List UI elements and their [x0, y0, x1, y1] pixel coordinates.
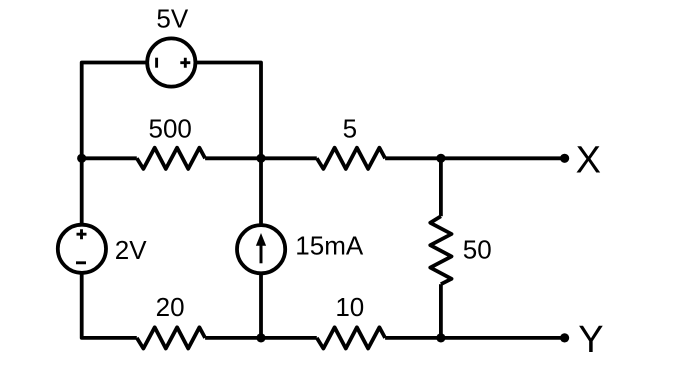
wire right vertical upper lead	[439, 158, 443, 216]
svg-text:5: 5	[343, 113, 357, 143]
voltage source V1 minus terminal mark	[155, 58, 158, 68]
node junction dot at middle main row	[256, 154, 265, 163]
svg-text:2V: 2V	[115, 235, 147, 265]
wire bottom row middle segment	[205, 336, 317, 340]
resistor R1 500	[137, 148, 205, 169]
resistor R4 20	[137, 327, 205, 348]
voltage source V2 minus mark	[76, 261, 86, 264]
svg-text:X: X	[576, 140, 601, 182]
node junction dot at left main row	[77, 154, 86, 163]
terminal node Y dot	[560, 333, 569, 342]
resistor R2 5	[317, 148, 385, 169]
wire left vertical + top horizontal + middle vertical (passes under 2V, 5V, 15mA sources)	[82, 63, 261, 338]
current source I1 15mA circle	[237, 225, 285, 273]
node junction dot at right main row	[436, 154, 445, 163]
terminal node X dot	[560, 154, 569, 163]
svg-text:500: 500	[149, 113, 192, 143]
svg-text:5V: 5V	[156, 4, 188, 34]
voltage source V2 2V circle	[58, 225, 106, 273]
wire main row middle segment	[205, 156, 317, 160]
svg-text:Y: Y	[578, 319, 603, 361]
svg-text:50: 50	[463, 235, 492, 265]
node junction dot at middle bottom row	[256, 333, 265, 342]
current source I1 arrow head	[256, 233, 266, 246]
wire main row right segment to terminal X	[385, 156, 564, 160]
wire bottom row right segment to terminal Y	[385, 336, 564, 340]
svg-text:15mA: 15mA	[295, 231, 364, 261]
resistor R3 50	[430, 216, 451, 284]
voltage source V2 plus mark	[77, 229, 87, 239]
svg-text:20: 20	[156, 292, 185, 322]
svg-text:10: 10	[335, 292, 364, 322]
voltage source V1 plus terminal mark	[180, 58, 190, 68]
wire right vertical lower lead	[439, 284, 443, 338]
current source I1 arrow shaft	[260, 244, 263, 263]
voltage source V1 5V circle	[147, 38, 195, 86]
node junction dot at right bottom row	[436, 333, 445, 342]
resistor R5 10	[317, 327, 385, 348]
wire main row left segment	[82, 156, 137, 160]
